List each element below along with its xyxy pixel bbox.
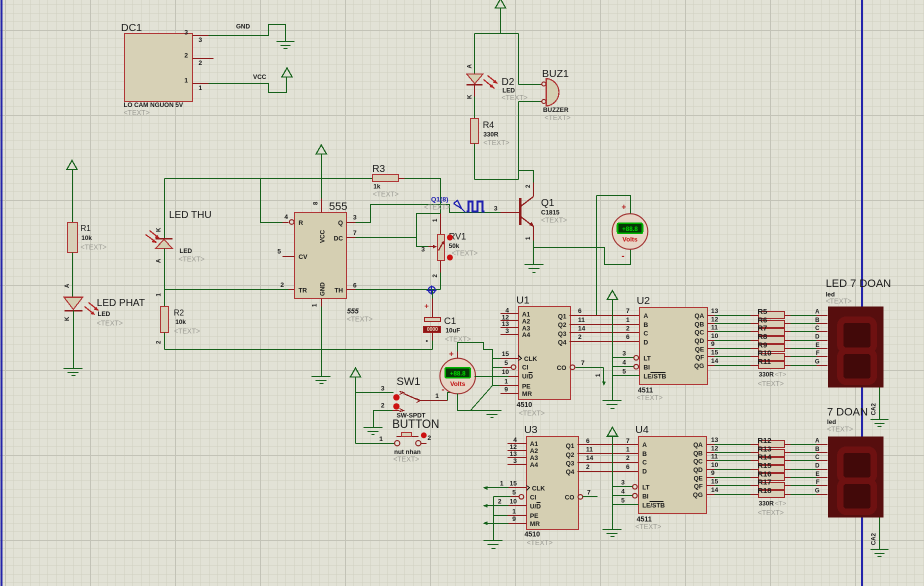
svg-text:5: 5 [621, 498, 625, 505]
svg-text:CI: CI [522, 365, 529, 372]
svg-text:5: 5 [622, 369, 626, 376]
svg-text:Q3: Q3 [566, 461, 575, 468]
svg-text:3: 3 [184, 30, 188, 37]
svg-text:C: C [642, 460, 647, 467]
svg-text:2: 2 [578, 334, 582, 341]
svg-text:2: 2 [626, 326, 630, 333]
svg-text:QC: QC [693, 459, 703, 466]
svg-text:VCC: VCC [320, 229, 327, 243]
svg-text:R4: R4 [483, 120, 495, 130]
svg-text:CO: CO [557, 365, 567, 372]
svg-text:-: - [442, 385, 445, 395]
svg-text:LED: LED [180, 248, 193, 255]
svg-text:2: 2 [381, 403, 385, 410]
svg-text:BUZ1: BUZ1 [542, 68, 569, 80]
svg-text:TR: TR [299, 288, 308, 295]
svg-text:4: 4 [284, 214, 288, 221]
svg-text:LO CAM NGUON 5V: LO CAM NGUON 5V [124, 102, 184, 109]
svg-text:CA2: CA2 [871, 532, 877, 545]
svg-text:2: 2 [586, 464, 590, 471]
svg-text:A: A [815, 310, 820, 316]
svg-text:D: D [815, 335, 820, 341]
svg-text:11: 11 [711, 454, 718, 461]
svg-text:9: 9 [711, 341, 715, 348]
svg-text:D: D [815, 464, 820, 470]
svg-text:G: G [815, 359, 820, 365]
svg-text:A: A [642, 442, 647, 449]
svg-text:10: 10 [510, 499, 518, 506]
svg-text:<TEXT>: <TEXT> [502, 95, 528, 102]
svg-text:3: 3 [199, 37, 203, 44]
svg-text:1: 1 [184, 78, 188, 85]
svg-text:Q: Q [338, 220, 343, 227]
svg-text:6: 6 [578, 308, 582, 315]
svg-text:2: 2 [428, 435, 432, 442]
svg-text:CO: CO [565, 495, 575, 502]
svg-text:2: 2 [280, 282, 284, 289]
svg-text:15: 15 [711, 350, 719, 357]
svg-text:3: 3 [381, 386, 385, 393]
svg-text:A: A [157, 258, 163, 263]
svg-text:BUZZER: BUZZER [543, 107, 569, 114]
svg-text:3: 3 [622, 351, 626, 358]
svg-text:TH: TH [334, 288, 343, 295]
svg-text:3: 3 [505, 328, 509, 335]
svg-text:MR: MR [522, 391, 532, 398]
svg-text:QB: QB [693, 450, 703, 457]
svg-text:PE: PE [522, 384, 531, 391]
svg-text:555: 555 [347, 309, 359, 316]
svg-text:<T>: <T> [775, 372, 787, 379]
svg-text:U1: U1 [516, 295, 530, 307]
svg-text:<TEXT>: <TEXT> [97, 321, 123, 328]
svg-text:12: 12 [711, 445, 719, 452]
svg-text:330R: 330R [759, 501, 775, 508]
svg-text:50k: 50k [449, 243, 460, 250]
svg-text:10: 10 [502, 369, 510, 376]
svg-text:3: 3 [353, 215, 357, 222]
svg-text:G: G [815, 488, 820, 494]
svg-text:QA: QA [695, 313, 705, 320]
svg-text:3: 3 [513, 458, 517, 465]
svg-text:13: 13 [711, 308, 719, 315]
svg-text:VCC: VCC [253, 74, 267, 81]
svg-text:A: A [65, 283, 71, 288]
svg-text:CI: CI [530, 494, 537, 501]
svg-text:7: 7 [587, 489, 591, 496]
svg-text:LED 7 DOAN: LED 7 DOAN [826, 278, 891, 290]
svg-text:1k: 1k [373, 184, 381, 191]
svg-text:LED: LED [502, 88, 515, 95]
svg-text:CA2: CA2 [871, 403, 877, 416]
svg-text:15: 15 [502, 351, 510, 358]
svg-text:QC: QC [695, 330, 705, 337]
svg-text:330R: 330R [759, 372, 775, 379]
svg-text:<TEXT>: <TEXT> [827, 426, 853, 433]
svg-text:+: + [449, 350, 454, 359]
svg-text:6: 6 [626, 334, 630, 341]
svg-text:C: C [815, 326, 820, 332]
svg-text:Q2: Q2 [566, 452, 575, 459]
svg-text:330R: 330R [483, 132, 499, 139]
svg-text:LED THU: LED THU [169, 210, 212, 221]
svg-text:R2: R2 [174, 309, 185, 318]
svg-text:A4: A4 [522, 332, 531, 339]
svg-text:QE: QE [694, 475, 704, 482]
svg-text:R: R [299, 220, 304, 227]
svg-text:Q2: Q2 [558, 322, 567, 329]
svg-text:B: B [642, 451, 647, 458]
svg-text:LT: LT [644, 356, 651, 363]
svg-text:2: 2 [498, 499, 502, 506]
svg-text:CV: CV [299, 254, 309, 261]
svg-text:1: 1 [500, 481, 504, 488]
svg-text:<TEXT>: <TEXT> [81, 245, 107, 252]
svg-text:A: A [644, 313, 649, 320]
svg-text:10k: 10k [81, 235, 92, 242]
svg-text:<TEXT>: <TEXT> [393, 457, 419, 464]
svg-text:PE: PE [530, 513, 539, 520]
svg-text:3: 3 [421, 247, 425, 254]
svg-text:U2: U2 [637, 295, 651, 307]
svg-text:U/D: U/D [522, 374, 533, 381]
svg-text:C1: C1 [444, 316, 456, 327]
svg-text:12: 12 [711, 316, 719, 323]
svg-text:D: D [642, 468, 647, 475]
svg-text:2: 2 [199, 60, 203, 67]
svg-text:C: C [815, 455, 820, 461]
svg-text:2: 2 [626, 455, 630, 462]
svg-text:F: F [816, 480, 820, 486]
svg-text:DC1: DC1 [121, 22, 142, 34]
svg-text:14: 14 [711, 358, 719, 365]
svg-text:K: K [157, 227, 163, 232]
svg-text:B: B [815, 318, 820, 324]
svg-text:Q4: Q4 [558, 340, 567, 347]
svg-text:BUTTON: BUTTON [392, 419, 439, 431]
svg-text:LED: LED [98, 311, 111, 318]
svg-text:4: 4 [621, 489, 625, 496]
svg-text:K: K [468, 94, 474, 99]
svg-text:R18: R18 [758, 486, 772, 495]
svg-text:QB: QB [695, 321, 705, 328]
svg-text:<TEXT>: <TEXT> [483, 140, 509, 147]
svg-text:13: 13 [711, 437, 719, 444]
svg-text:<TEXT>: <TEXT> [179, 257, 205, 264]
svg-text:B: B [815, 447, 820, 453]
svg-text:U/D: U/D [530, 503, 541, 510]
svg-text:Q1(8): Q1(8) [431, 197, 448, 204]
svg-text:QG: QG [693, 492, 703, 499]
svg-text:5: 5 [504, 360, 508, 367]
svg-text:CLK: CLK [524, 356, 538, 363]
svg-text:2: 2 [184, 53, 188, 60]
svg-text:<TEXT>: <TEXT> [373, 192, 399, 199]
svg-text:LE/STB: LE/STB [642, 502, 665, 509]
svg-text:R11: R11 [758, 357, 772, 366]
svg-text:<TEXT>: <TEXT> [527, 540, 553, 547]
svg-text:<T>: <T> [775, 501, 787, 508]
svg-text:LT: LT [642, 485, 649, 492]
svg-text:1: 1 [626, 447, 630, 454]
svg-text:<TEXT>: <TEXT> [174, 329, 200, 336]
svg-text:A4: A4 [530, 462, 539, 469]
svg-text:MR: MR [530, 521, 540, 528]
svg-text:<TEXT>: <TEXT> [758, 381, 784, 388]
svg-text:nut nhan: nut nhan [394, 449, 421, 456]
svg-text:10k: 10k [175, 319, 186, 326]
svg-text:U4: U4 [635, 424, 649, 436]
svg-text:5: 5 [277, 249, 281, 256]
svg-text:5: 5 [512, 490, 516, 497]
svg-text:7: 7 [626, 438, 630, 445]
svg-text:BI: BI [642, 493, 649, 500]
svg-text:LED PHAT: LED PHAT [97, 298, 145, 309]
svg-text:C: C [644, 331, 649, 338]
svg-text:D2: D2 [502, 77, 515, 88]
svg-text:<TEXT>: <TEXT> [826, 298, 852, 305]
svg-text:<TEXT>: <TEXT> [635, 524, 661, 531]
svg-text:<TEXT>: <TEXT> [519, 411, 545, 418]
svg-text:1: 1 [379, 436, 383, 443]
svg-text:1: 1 [512, 508, 516, 515]
svg-text:+: + [424, 302, 429, 311]
svg-text:14: 14 [578, 326, 586, 333]
svg-text:<TEXT>: <TEXT> [758, 510, 784, 517]
svg-text:B: B [644, 322, 649, 329]
svg-text:1: 1 [626, 317, 630, 324]
svg-text:6: 6 [353, 282, 357, 289]
svg-text:SW1: SW1 [397, 376, 421, 388]
svg-text:A: A [815, 439, 820, 445]
svg-text:1: 1 [199, 85, 203, 92]
svg-text:QD: QD [695, 338, 705, 345]
svg-text:Volts: Volts [622, 237, 638, 244]
svg-text:15: 15 [711, 479, 719, 486]
svg-text:QA: QA [693, 442, 703, 449]
svg-text:4: 4 [622, 360, 626, 367]
svg-text:<TEXT>: <TEXT> [424, 205, 450, 212]
svg-text:1: 1 [435, 393, 439, 400]
svg-text:-: - [622, 251, 625, 261]
svg-text:+88.8: +88.8 [450, 371, 466, 378]
svg-text:1: 1 [504, 379, 508, 386]
svg-text:DC: DC [334, 236, 344, 243]
svg-text:QG: QG [694, 363, 704, 370]
svg-text:6: 6 [626, 464, 630, 471]
svg-text:+88.8: +88.8 [622, 226, 638, 233]
svg-text:<TEXT>: <TEXT> [637, 395, 663, 402]
svg-text:QE: QE [695, 346, 705, 353]
svg-text:BI: BI [644, 364, 651, 371]
svg-text:4510: 4510 [517, 402, 533, 409]
svg-text:+: + [622, 203, 627, 212]
svg-text:Q4: Q4 [566, 469, 575, 476]
svg-text:4511: 4511 [637, 517, 652, 524]
svg-text:A: A [468, 64, 474, 69]
svg-text:6: 6 [586, 438, 590, 445]
svg-text:10uF: 10uF [446, 328, 461, 335]
svg-text:Q1: Q1 [541, 198, 555, 209]
svg-text:555: 555 [329, 201, 347, 213]
svg-text:QF: QF [694, 484, 703, 491]
svg-text:U3: U3 [524, 424, 538, 436]
svg-text:QD: QD [693, 467, 703, 474]
svg-text:led: led [827, 419, 836, 426]
svg-text:9: 9 [504, 386, 508, 393]
svg-text:9: 9 [512, 516, 516, 523]
svg-text:11: 11 [586, 447, 593, 454]
svg-text:11: 11 [578, 317, 585, 324]
svg-text:7 DOAN: 7 DOAN [827, 407, 868, 419]
svg-text:0000: 0000 [427, 327, 438, 333]
svg-text:9: 9 [711, 470, 715, 477]
svg-text:GND: GND [320, 282, 327, 296]
svg-text:CLK: CLK [532, 486, 546, 493]
svg-text:7: 7 [626, 308, 630, 315]
svg-text:14: 14 [711, 487, 719, 494]
svg-text:C1815: C1815 [541, 210, 560, 217]
svg-text:<TEXT>: <TEXT> [347, 317, 373, 324]
svg-text:E: E [815, 472, 819, 478]
svg-text:4511: 4511 [638, 388, 653, 395]
svg-text:K: K [65, 316, 71, 321]
svg-text:QF: QF [695, 355, 704, 362]
svg-text:R1: R1 [81, 224, 92, 233]
svg-text:Volts: Volts [450, 381, 466, 388]
svg-text:15: 15 [510, 481, 518, 488]
svg-text:11: 11 [711, 325, 718, 332]
svg-text:Q3: Q3 [558, 331, 567, 338]
svg-text:10: 10 [711, 333, 719, 340]
svg-text:4510: 4510 [525, 532, 541, 539]
svg-text:<TEXT>: <TEXT> [452, 251, 478, 258]
svg-text:3: 3 [621, 480, 625, 487]
svg-text:R3: R3 [372, 164, 385, 175]
svg-text:<TEXT>: <TEXT> [545, 115, 571, 122]
svg-text:Q1: Q1 [558, 313, 567, 320]
svg-text:10: 10 [711, 462, 719, 469]
svg-text:D: D [644, 339, 649, 346]
svg-text:14: 14 [586, 455, 594, 462]
svg-text:GND: GND [236, 24, 250, 31]
svg-text:F: F [816, 351, 820, 357]
svg-text:Q1: Q1 [566, 443, 575, 450]
svg-text:LE/STB: LE/STB [644, 373, 667, 380]
svg-text:3: 3 [494, 206, 498, 213]
svg-text:7: 7 [353, 230, 357, 237]
svg-text:E: E [815, 343, 819, 349]
svg-text:<TEXT>: <TEXT> [124, 110, 150, 117]
svg-text:<TEXT>: <TEXT> [541, 218, 567, 225]
svg-text:7: 7 [581, 360, 585, 367]
